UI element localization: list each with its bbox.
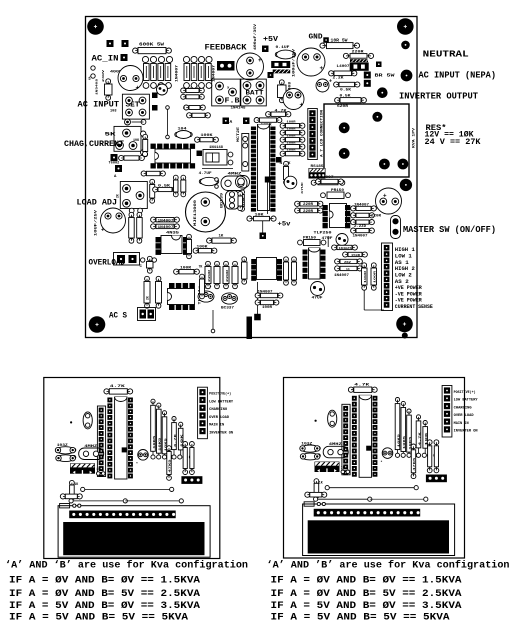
- svg-text:10K: 10K: [243, 197, 246, 206]
- resistor vertical right of 4N35: [187, 234, 192, 239]
- electrolytic capacitor C6: [283, 89, 304, 110]
- resistor row 2K2: [335, 259, 340, 264]
- svg-text:IF A = ØV AND B= ØV == 1.: IF A = ØV AND B= ØV == 1.5KVA: [271, 575, 462, 587]
- wire U7 to pad bottom: [257, 282, 259, 316]
- regulator block with hatch: [271, 61, 290, 68]
- rings left edge column: [91, 66, 95, 70]
- zener 2.2ZD: [351, 220, 356, 225]
- pad bottom edge: [402, 333, 408, 339]
- wire 100R pair to J2: [363, 290, 365, 310]
- component vertical near Q2 a: [173, 175, 178, 180]
- pad right of output block: [376, 62, 382, 68]
- transistor Q5: [157, 84, 168, 95]
- connector overload: [114, 253, 140, 266]
- resistor row 150R: [343, 252, 348, 257]
- svg-text:AC S: AC S: [109, 312, 127, 321]
- resistor 220R pair a: [295, 201, 300, 206]
- svg-text:1N4007: 1N4007: [158, 226, 174, 230]
- wire SET to relay: [132, 121, 144, 123]
- capacitor 47UF b: [311, 282, 325, 296]
- diode 1N4007 pair b: [151, 224, 156, 229]
- svg-text:1N4A25: 1N4A25: [339, 247, 352, 250]
- pad inside DIP40 + wire: [265, 177, 271, 183]
- svg-text:47UF: 47UF: [322, 237, 333, 241]
- svg-text:LOAD ADJ: LOAD ADJ: [77, 199, 118, 208]
- pads BR 5W: [364, 72, 371, 79]
- wire TLP to SG3524: [327, 236, 329, 247]
- svg-text:2K2: 2K2: [344, 261, 351, 264]
- svg-text:IF A = 5V AND B= ØV == 3.: IF A = 5V AND B= ØV == 3.5KVA: [9, 600, 200, 612]
- pad T6002 left: [111, 154, 118, 161]
- svg-text:BD139: BD139: [220, 193, 224, 208]
- mounting hole top-right: [397, 18, 414, 35]
- black bar edge connector: [247, 317, 253, 340]
- svg-text:1N4007: 1N4007: [334, 273, 349, 277]
- electrolytic capacitor C5 near FEEDBACK: [237, 53, 264, 80]
- svg-text:220R: 220R: [226, 269, 229, 282]
- svg-text:+: +: [383, 193, 387, 200]
- svg-text:2.2ZD: 2.2ZD: [354, 224, 366, 228]
- svg-text:2: 2: [183, 107, 185, 111]
- op-amp U3 TL084: [168, 289, 195, 305]
- capacitor bank B x4: [184, 64, 190, 81]
- svg-text:MASTER SW (ON/OFF): MASTER SW (ON/OFF): [403, 224, 496, 235]
- svg-text:220R: 220R: [303, 202, 313, 206]
- pad AC input big: [401, 70, 413, 82]
- svg-text:+: +: [320, 65, 324, 72]
- diode 1N4007 right b: [351, 228, 356, 233]
- display board 2 outline: [284, 378, 465, 559]
- resistor pair vertical 2K: [145, 276, 150, 281]
- svg-text:100uF/35V: 100uF/35V: [292, 48, 297, 77]
- svg-text:2K: 2K: [146, 296, 150, 300]
- comparator U1 DIP-14: [155, 149, 191, 163]
- svg-text:1N5408: 1N5408: [96, 79, 99, 95]
- svg-text:IF A = ØV AND B= ØV == 1.: IF A = ØV AND B= ØV == 1.5KVA: [9, 575, 200, 587]
- resistor 100R vertical pair: [362, 263, 367, 268]
- capacitor bank C-filter x4: [144, 64, 150, 81]
- pad right of SET a: [152, 93, 158, 99]
- wire horizontal net2: [212, 310, 214, 331]
- pad row under capacitor bank: [143, 83, 149, 89]
- resistor pair vertical 1N4007 under K2: [129, 212, 134, 217]
- connector J2 control signals: [382, 243, 393, 311]
- mounting hole top-left: [87, 18, 104, 35]
- svg-text:INVERTER OUTPUT: INVERTER OUTPUT: [399, 90, 478, 101]
- driver U5 TLP250: [330, 204, 347, 228]
- mounting hole bottom-right: [396, 316, 413, 333]
- PWM U6 SG3524: [309, 248, 321, 279]
- relay K1 charge current: [114, 126, 141, 151]
- svg-text:2K: 2K: [116, 194, 120, 198]
- pads under K2: [129, 208, 134, 213]
- resistor 2K: [184, 105, 189, 110]
- svg-text:1N4007: 1N4007: [158, 219, 174, 223]
- resistor vertical right of K2: [150, 179, 155, 184]
- pad +5V: [262, 46, 269, 53]
- pad below transformer area: [400, 179, 412, 191]
- terminal block output: [350, 59, 368, 62]
- svg-text:220R: 220R: [208, 269, 211, 282]
- resistor 7K vertical: [242, 257, 247, 262]
- resistor 220R right: [351, 213, 356, 218]
- resistor vertical below TO-92: [238, 191, 243, 196]
- pad below T6002: [115, 165, 122, 172]
- svg-text:220R: 220R: [371, 214, 381, 218]
- svg-text:BATT: BATT: [246, 90, 264, 97]
- resistor vertical near K1: [143, 134, 148, 139]
- svg-text:10UF/25V: 10UF/25V: [94, 208, 99, 236]
- svg-text:+: +: [136, 85, 140, 92]
- pad AC_IN 3: [121, 54, 128, 61]
- svg-text:A: A: [230, 119, 233, 125]
- trimmer block: [203, 150, 227, 166]
- transformer lug 3: [339, 148, 350, 159]
- svg-text:AC INPUT: AC INPUT: [78, 101, 120, 110]
- svg-text:F.B: F.B: [225, 98, 241, 106]
- resistor cluster vertical x4: [206, 261, 211, 266]
- transformer lug 5: [398, 159, 409, 170]
- transformer lug 2: [372, 112, 382, 122]
- svg-text:+: +: [258, 57, 262, 64]
- svg-text:1N4007: 1N4007: [353, 234, 368, 238]
- svg-text:AC_IN: AC_IN: [92, 55, 119, 64]
- terminal block F.B: [212, 79, 241, 106]
- resistor row 14: [335, 266, 340, 271]
- pad under SET block: [125, 119, 131, 125]
- display board 1 outline: [44, 378, 220, 559]
- wire trimmer to crystal: [202, 168, 233, 170]
- svg-text:4N35: 4N35: [166, 231, 180, 235]
- svg-text:+5V: +5V: [263, 36, 279, 44]
- pad row under capacitor bank B: [184, 83, 190, 89]
- svg-text:‘A’ AND ’B’ are use for Kva: ‘A’ AND ’B’ are use for Kva configration: [267, 560, 510, 572]
- svg-text:108: 108: [110, 110, 116, 114]
- transistor Q2 small TO-92: [226, 191, 240, 209]
- svg-text:47UF: 47UF: [312, 297, 323, 301]
- svg-text:7K: 7K: [199, 265, 203, 269]
- svg-text:+: +: [329, 79, 332, 85]
- SIL header with rings: [242, 134, 249, 172]
- pad right of 10R 5W: [401, 41, 410, 50]
- transistor Q4 BC337: [222, 293, 238, 304]
- electrolytic capacitor C4: [376, 188, 402, 214]
- svg-text:400uF/35V: 400uF/35V: [253, 23, 258, 50]
- pad row under 600K resistor: [142, 56, 148, 62]
- resistor 100R bottom-left: [255, 300, 260, 305]
- svg-text:100R: 100R: [262, 305, 272, 309]
- diode 1N4007 under RS485: [311, 180, 316, 185]
- svg-text:AC INPUT (NEPA): AC INPUT (NEPA): [419, 69, 497, 80]
- svg-text:IF A = 5V AND B= ØV == 3.: IF A = 5V AND B= ØV == 3.5KVA: [271, 600, 462, 612]
- terminal block BATT: [241, 79, 266, 106]
- svg-text:620R: 620R: [337, 105, 349, 109]
- svg-text:0.1UF: 0.1UF: [276, 46, 291, 50]
- svg-text:KVA 1PV: KVA 1PV: [413, 127, 417, 148]
- svg-text:+: +: [300, 102, 304, 109]
- terminal block AC 2-pin upper: [217, 61, 235, 71]
- diode D1 1N5408: [106, 79, 111, 84]
- svg-text:BC337: BC337: [221, 307, 234, 311]
- svg-text:1N4007: 1N4007: [354, 202, 369, 206]
- svg-text:1N4148: 1N4148: [231, 106, 246, 110]
- LED D2: [316, 79, 329, 92]
- transformer lug 1: [339, 122, 350, 133]
- pad AC_IN 1: [107, 40, 114, 47]
- svg-text:47UF: 47UF: [301, 182, 304, 194]
- pad row above capacitor bank B: [183, 56, 189, 62]
- diode 1N4007 pair a: [151, 217, 156, 222]
- svg-text:+: +: [101, 227, 105, 234]
- svg-text:GND: GND: [309, 34, 323, 42]
- pad under regulator: [268, 72, 274, 78]
- svg-text:1N4007: 1N4007: [258, 289, 273, 293]
- transformer lug 4: [379, 159, 390, 170]
- svg-text:24 V == 27K: 24 V == 27K: [425, 137, 482, 147]
- resistor 2.2K: [329, 71, 334, 76]
- svg-text:IF A = 5V AND B= 5V == 5K: IF A = 5V AND B= 5V == 5KVA: [271, 612, 450, 623]
- svg-text:NEUTRAL: NEUTRAL: [423, 49, 469, 60]
- svg-text:PR150: PR150: [331, 189, 344, 193]
- svg-text:600K 5W: 600K 5W: [139, 42, 164, 48]
- capacitor C small mid: [147, 256, 152, 261]
- display board 1 content: [55, 385, 234, 557]
- svg-text:+5v: +5v: [278, 221, 291, 228]
- mounting hole bottom-left: [89, 316, 106, 333]
- svg-text:T6002: T6002: [109, 162, 120, 166]
- transformer terminal area: [324, 104, 409, 177]
- svg-text:PR150: PR150: [303, 237, 316, 241]
- resistor 100R bottom of F.B: [254, 118, 259, 123]
- svg-text:240V: 240V: [102, 70, 105, 82]
- svg-text:0.5K: 0.5K: [340, 89, 352, 93]
- svg-text:14: 14: [346, 268, 350, 271]
- resistor 1K mid: [187, 113, 192, 118]
- pad right of SET b: [152, 105, 158, 111]
- rings above 2K pair: [141, 258, 145, 262]
- svg-text:220R: 220R: [303, 209, 313, 213]
- pad AC_IN 2: [122, 40, 129, 47]
- svg-text:‘A’ AND ‘B’ are use for Kva: ‘A’ AND ‘B’ are use for Kva configration: [5, 560, 248, 572]
- svg-text:100R: 100R: [364, 270, 367, 283]
- svg-text:10K: 10K: [133, 139, 140, 143]
- resistor 4.7K b: [181, 94, 186, 99]
- svg-text:IF A = ØV AND B= 5V == 2.: IF A = ØV AND B= 5V == 2.5KVA: [9, 588, 200, 600]
- pad mid: [243, 118, 250, 125]
- svg-text:1N4148: 1N4148: [209, 145, 223, 149]
- connector MASTER SW: [391, 216, 401, 239]
- pad +5v mid: [260, 233, 267, 240]
- terminal block SET: [122, 94, 149, 119]
- svg-text:2.2K: 2.2K: [333, 77, 345, 81]
- resistor 220R pair b: [295, 208, 300, 213]
- svg-text:100R: 100R: [373, 270, 376, 283]
- resistor 100K lower-left: [141, 171, 146, 176]
- svg-text:BR 5W: BR 5W: [375, 73, 395, 79]
- ring lower left of relay K2: [143, 152, 148, 157]
- svg-text:1N4007: 1N4007: [175, 65, 179, 82]
- diode row 1N4A25: [332, 245, 337, 250]
- capacitor small disc mid: [284, 176, 297, 189]
- diode 1N5408 vertical: [279, 80, 284, 85]
- op-amp U7 DIP-8: [257, 258, 277, 280]
- svg-text:CURRENT SENSE: CURRENT SENSE: [395, 303, 434, 310]
- svg-text:TLP250: TLP250: [314, 232, 333, 236]
- resistor vertical right of Q2: [240, 190, 245, 195]
- electrolytic capacitor C2 100UF/35V: [297, 48, 325, 76]
- svg-text:150R: 150R: [351, 254, 360, 257]
- pad A left: [223, 118, 230, 125]
- pad inverter out small: [377, 87, 388, 98]
- resistor 0.5K b: [334, 82, 339, 87]
- svg-text:L4007: L4007: [337, 65, 350, 69]
- wire vertical net1: [167, 108, 169, 138]
- electrolytic capacitor C3 10UF/25V: [101, 208, 126, 233]
- LCD connection header: [308, 109, 318, 160]
- main control PCB outline: [86, 17, 418, 338]
- transistor Q1 MJE13009: [186, 192, 226, 232]
- display board 2 content: [300, 384, 479, 556]
- component vertical near Q2 b: [181, 175, 186, 180]
- svg-text:IF A = ØV AND B= 5V == 2.: IF A = ØV AND B= 5V == 2.5KVA: [271, 588, 462, 600]
- svg-text:CHAG,CURRENT: CHAG,CURRENT: [64, 140, 124, 149]
- svg-text:MJE13009: MJE13009: [194, 200, 198, 226]
- pad left of 4.7K vertical: [276, 157, 282, 163]
- svg-text:4.7UF: 4.7UF: [199, 172, 212, 176]
- svg-text:FEEDBACK: FEEDBACK: [205, 43, 247, 52]
- microcontroller U4 DIP-40: [258, 125, 270, 211]
- svg-text:6A: 6A: [89, 76, 92, 80]
- resistor T6002: [119, 155, 124, 160]
- svg-text:A 7 LCD CONNECTION: A 7 LCD CONNECTION: [321, 110, 325, 157]
- resistor pair vertical right of U7: [284, 257, 289, 262]
- part TO-92 left of DIP40: [236, 176, 250, 189]
- svg-text:MCT2E: MCT2E: [237, 127, 241, 142]
- relay K2 load adjust: [120, 182, 147, 209]
- svg-text:IF A = 5V AND B= 5V == 5K: IF A = 5V AND B= 5V == 5KVA: [9, 612, 188, 623]
